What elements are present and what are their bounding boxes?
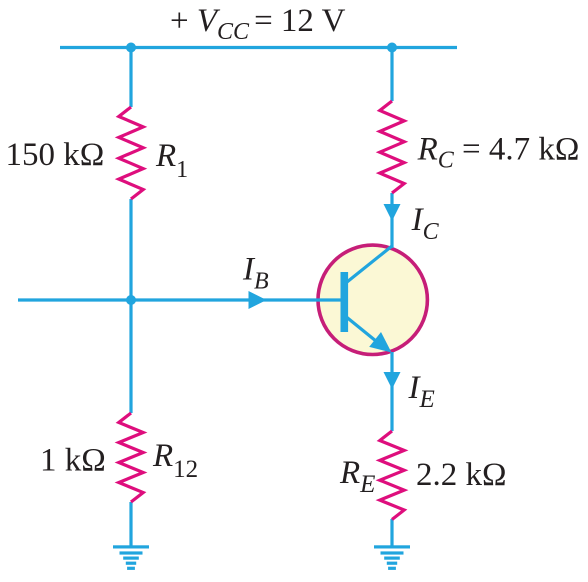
svg-text:1 kΩ: 1 kΩ xyxy=(40,443,106,479)
svg-text:2.2 kΩ: 2.2 kΩ xyxy=(416,457,507,493)
svg-text:+ VCC= 12 V: + VCC= 12 V xyxy=(170,3,346,45)
svg-text:150 kΩ: 150 kΩ xyxy=(6,137,105,173)
